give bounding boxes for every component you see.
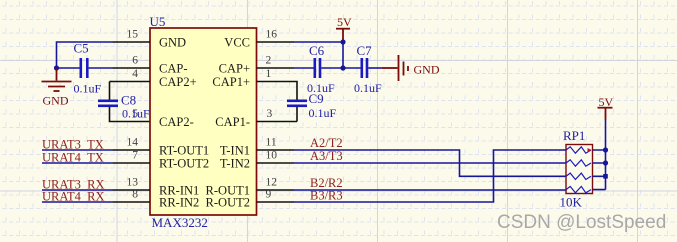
svg-text:T-IN2: T-IN2 (220, 157, 250, 171)
svg-text:MAX3232: MAX3232 (152, 215, 208, 230)
svg-text:A3/T3: A3/T3 (310, 149, 343, 163)
svg-text:3: 3 (267, 108, 273, 120)
capacitor C9 (287, 100, 307, 108)
pin 4 CAP2+ (113, 81, 151, 83)
capacitor C5 (80, 58, 89, 78)
RP1 right stubs (593, 150, 606, 190)
svg-text:RP1: RP1 (563, 128, 585, 143)
power 5V right (598, 108, 613, 120)
svg-text:10K: 10K (560, 195, 583, 210)
svg-text:B3/R3: B3/R3 (310, 189, 343, 203)
svg-text:7: 7 (132, 150, 138, 162)
svg-text:CAP-: CAP- (159, 62, 187, 76)
power 5V top (336, 29, 350, 40)
svg-text:CAP2-: CAP2- (159, 115, 194, 129)
wire B3/R3 run (294, 150, 566, 202)
svg-text:5V: 5V (599, 95, 614, 109)
svg-text:0.1uF: 0.1uF (122, 107, 150, 121)
capacitor C6 (314, 58, 322, 78)
wire URAT4_TX (42, 162, 113, 164)
pin 3 CAP1- (257, 121, 298, 123)
junction B (340, 39, 345, 44)
svg-text:VCC: VCC (224, 36, 250, 50)
svg-text:CAP1+: CAP1+ (212, 75, 250, 89)
svg-text:0.1uF: 0.1uF (307, 81, 335, 95)
pin 12 R-OUT1 (257, 189, 295, 191)
svg-text:CAP2+: CAP2+ (159, 75, 197, 89)
junction R2 (603, 160, 608, 165)
svg-text:1: 1 (266, 68, 272, 80)
svg-text:14: 14 (127, 137, 139, 149)
wire B2/R2 run (294, 189, 566, 191)
pin 14 RT-OUT1 (113, 149, 151, 151)
resistor RP1 element 4 (566, 186, 591, 192)
pin 6 CAP- (113, 67, 151, 69)
junction A (54, 65, 59, 70)
wire A3/T3 run (294, 162, 566, 164)
wire C9 bottom to pin3 (296, 107, 298, 122)
svg-text:GND: GND (414, 63, 440, 77)
pin 13 RR-IN1 (113, 189, 151, 191)
pin 10 T-IN2 (257, 162, 295, 164)
wire A2/T2 run (294, 150, 566, 176)
wire C5 to pin6 (89, 67, 113, 69)
wire URAT4_RX (42, 201, 113, 203)
pin 9 R-OUT2 (257, 201, 295, 203)
svg-text:CSDN @LostSpeed: CSDN @LostSpeed (497, 212, 666, 233)
svg-text:C7: C7 (357, 43, 373, 58)
junction R1 (603, 147, 608, 152)
capacitor C7 (361, 58, 369, 78)
svg-text:C5: C5 (74, 41, 89, 56)
svg-text:CAP+: CAP+ (219, 62, 250, 76)
resistor RP1 element 3 (566, 173, 591, 179)
ground GND right (rotated power ground) (382, 55, 408, 81)
svg-text:8: 8 (132, 189, 138, 201)
wire pin1 to C9 top (294, 82, 297, 100)
svg-text:GND: GND (43, 94, 69, 108)
wire 5V vertical (342, 40, 344, 68)
svg-text:0.1uF: 0.1uF (354, 81, 382, 95)
svg-text:2: 2 (266, 55, 272, 67)
svg-text:C6: C6 (309, 43, 325, 58)
svg-text:13: 13 (127, 177, 139, 189)
wire 5V right vertical (605, 120, 607, 190)
pin 16 VCC (257, 41, 295, 43)
resistor RP1 element 2 (566, 160, 591, 166)
svg-text:U5: U5 (150, 14, 166, 29)
svg-text:10: 10 (266, 150, 278, 162)
IC U1 body MAX3232 (150, 28, 257, 215)
wire pin2 to C6 (294, 67, 314, 69)
capacitor C8 (98, 100, 118, 108)
svg-text:16: 16 (266, 29, 278, 41)
wire/loop C8 from pin4 row to CAP2- row (110, 82, 151, 122)
wire pin16 to 5V (294, 41, 343, 43)
wire C6 to junction to C7 (321, 67, 360, 69)
junction R3 (603, 174, 608, 179)
RP1 pin1 marker (588, 148, 592, 152)
svg-text:5V: 5V (337, 15, 352, 29)
junction C (340, 65, 345, 70)
svg-text:T-IN1: T-IN1 (220, 144, 250, 158)
pin 15 GND (113, 41, 151, 43)
svg-text:9: 9 (266, 189, 272, 201)
pin 7 RT-OUT2 (113, 162, 151, 164)
pin 2 CAP+ (257, 67, 295, 69)
ground GND left (42, 68, 72, 91)
svg-text:4: 4 (132, 68, 138, 80)
wire URAT3_RX (42, 189, 113, 191)
wire C7 to GND (368, 67, 382, 69)
svg-text:11: 11 (266, 137, 277, 149)
wire URAT3_TX (42, 149, 113, 151)
svg-text:R-OUT2: R-OUT2 (206, 196, 250, 210)
svg-text:RR-IN2: RR-IN2 (159, 196, 199, 210)
svg-text:CAP1-: CAP1- (215, 115, 250, 129)
pin 1 CAP1+ (257, 81, 295, 83)
resistor RP1 element 1 (566, 147, 591, 153)
svg-text:A2/T2: A2/T2 (310, 136, 343, 150)
svg-text:6: 6 (132, 55, 138, 67)
svg-text:RT-OUT1: RT-OUT1 (159, 144, 209, 158)
svg-text:GND: GND (159, 36, 186, 50)
svg-text:RT-OUT2: RT-OUT2 (159, 157, 209, 171)
svg-text:C8: C8 (121, 93, 136, 108)
pin 11 T-IN1 (257, 149, 295, 151)
wire junction to C5 (57, 67, 80, 69)
svg-text:12: 12 (266, 177, 278, 189)
svg-text:15: 15 (127, 29, 139, 41)
wire pin15 to junction (57, 42, 113, 68)
resistor pack RP1 body (566, 145, 593, 194)
svg-text:0.1uF: 0.1uF (74, 82, 102, 96)
pin 8 RR-IN2 (113, 201, 151, 203)
svg-text:0.1uF: 0.1uF (309, 106, 337, 120)
